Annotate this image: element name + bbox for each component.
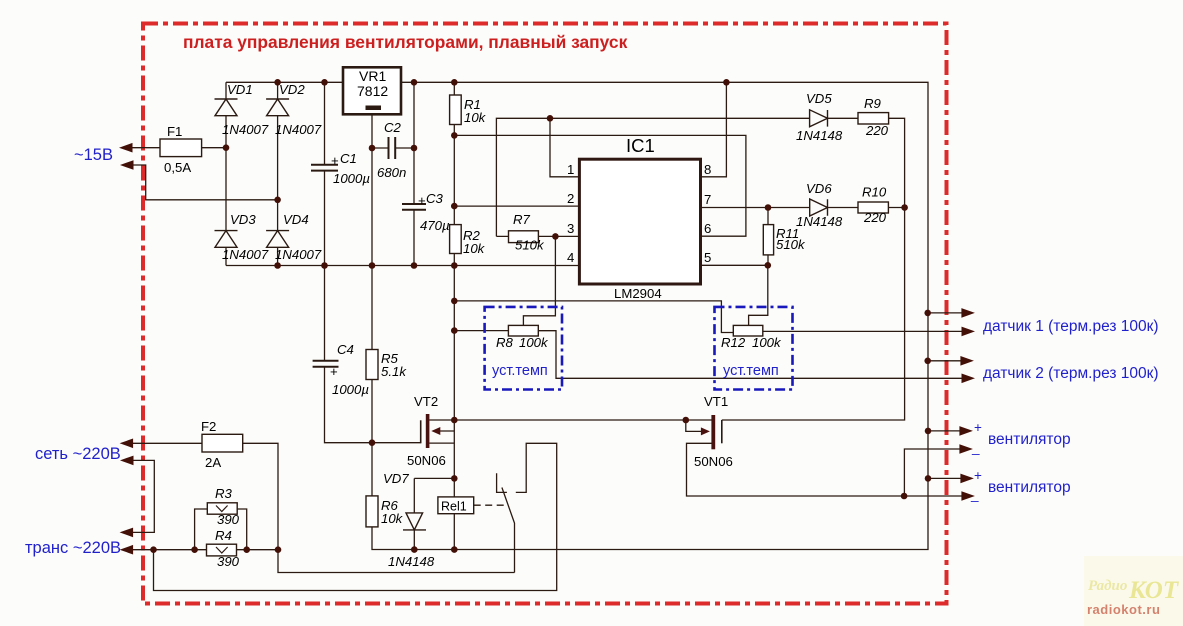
fuse F2 bbox=[202, 434, 243, 452]
svg-text:1000µ: 1000µ bbox=[332, 382, 369, 397]
capacitor C1 branch bbox=[324, 82, 326, 265]
capacitor C4 plates bbox=[313, 361, 339, 367]
diode VD2 branch vertical bbox=[277, 82, 279, 265]
svg-text:220: 220 bbox=[865, 123, 889, 138]
svg-text:1000µ: 1000µ bbox=[333, 171, 370, 186]
svg-text:5: 5 bbox=[704, 250, 711, 265]
svg-text:10k: 10k bbox=[464, 110, 487, 125]
capacitor C3 branch bbox=[413, 82, 415, 265]
svg-text:датчик 2 (терм.рез 100к): датчик 2 (терм.рез 100к) bbox=[983, 365, 1159, 382]
svg-text:C3: C3 bbox=[426, 191, 444, 206]
svg-text:8: 8 bbox=[704, 162, 711, 177]
svg-text:вентилятор: вентилятор bbox=[988, 479, 1071, 496]
svg-text:R9: R9 bbox=[864, 96, 882, 111]
svg-text:Rel1: Rel1 bbox=[441, 500, 467, 514]
svg-text:F1: F1 bbox=[167, 124, 182, 139]
svg-text:VD1: VD1 bbox=[227, 82, 253, 97]
wire датчик top taps bbox=[928, 313, 962, 361]
relay moving arm bbox=[502, 488, 515, 573]
dashed link Rel1 to contact bbox=[474, 504, 505, 506]
resistor R7 bbox=[509, 231, 539, 243]
resistor R11 bbox=[763, 225, 773, 255]
wire VT2 arrow lead bbox=[437, 430, 454, 432]
svg-text:КОТ: КОТ bbox=[1128, 577, 1180, 604]
resistor R5 branch bbox=[371, 266, 373, 443]
svg-text:VD4: VD4 bbox=[283, 212, 309, 227]
blue IO texts bbox=[25, 146, 1159, 557]
svg-text:5.1k: 5.1k bbox=[381, 364, 407, 379]
svg-text:уст.темп: уст.темп bbox=[492, 363, 548, 379]
resistor R4 bbox=[207, 544, 237, 556]
svg-text:680n: 680n bbox=[377, 165, 406, 180]
capacitor C4 plates connection bbox=[324, 266, 326, 361]
wire VT1 drain dot stub and arrow lead bbox=[686, 420, 701, 431]
svg-text:IC1: IC1 bbox=[626, 135, 655, 156]
wire вентилятор1 minus branch bbox=[904, 449, 961, 496]
fuse F2 row and riser down to relay arm wire bbox=[132, 443, 515, 572]
relay coil Rel1 box bbox=[438, 497, 474, 514]
svg-text:плата управления вентиляторами: плата управления вентиляторами, плавный … bbox=[183, 32, 628, 52]
diode VD7 branch bbox=[414, 478, 454, 549]
capacitor C1 plates bbox=[311, 165, 338, 171]
relay fixed contact staple to bottom loop wire bbox=[154, 443, 557, 590]
wire R10 node down to gate row bbox=[722, 208, 905, 421]
diode VD4 symbol bbox=[266, 231, 289, 248]
svg-text:1N4007: 1N4007 bbox=[275, 122, 322, 137]
resistor R1 bbox=[450, 95, 462, 125]
resistor R9 bbox=[858, 113, 889, 124]
svg-text:7812: 7812 bbox=[357, 83, 388, 99]
svg-text:+: + bbox=[331, 153, 339, 168]
wire R7 node down to R8 wiper bbox=[523, 236, 555, 325]
svg-text:1N4148: 1N4148 bbox=[388, 554, 435, 569]
svg-text:3: 3 bbox=[567, 221, 574, 236]
diode VD1 branch vertical bbox=[225, 82, 227, 265]
resistor R2 bbox=[450, 225, 462, 254]
svg-text:+: + bbox=[974, 468, 982, 483]
svg-text:0,5A: 0,5A bbox=[164, 160, 191, 175]
svg-text:R7: R7 bbox=[513, 212, 531, 227]
svg-text:транс ~220В: транс ~220В bbox=[25, 539, 121, 557]
svg-text:R12: R12 bbox=[721, 335, 746, 350]
diode VD6 symbol bbox=[810, 199, 828, 216]
resistor R3 bbox=[207, 503, 237, 514]
svg-text:390: 390 bbox=[217, 512, 240, 527]
wire gate row VT2 drain to VT1 drain bbox=[429, 419, 711, 421]
wire top rail left (VD1 top to VR1) bbox=[226, 81, 343, 83]
svg-text:~15В: ~15В bbox=[74, 146, 113, 164]
svg-text:датчик 1 (терм.рез 100к): датчик 1 (терм.рез 100к) bbox=[983, 318, 1159, 335]
svg-text:2A: 2A bbox=[205, 455, 221, 470]
diode VD3 symbol bbox=[215, 231, 238, 248]
svg-text:C1: C1 bbox=[340, 151, 357, 166]
wire F1 row bbox=[131, 147, 226, 149]
svg-text:R3: R3 bbox=[215, 486, 233, 501]
svg-text:10k: 10k bbox=[463, 241, 486, 256]
svg-text:50N06: 50N06 bbox=[407, 453, 446, 468]
wire top rail right (VR1 to right corner) then +12V column down to bottom rail, bottom rail to R6 bbox=[372, 82, 928, 549]
wire транс row bbox=[132, 549, 278, 551]
wire IC pin2 row bbox=[454, 205, 579, 207]
transistor VT2 gate line bbox=[420, 420, 422, 443]
resistor R1/R2 column down through VT2 to relay and bottom rail bbox=[453, 82, 455, 549]
svg-text:VD3: VD3 bbox=[230, 212, 256, 227]
right arrows bbox=[961, 308, 975, 318]
svg-text:10k: 10k bbox=[381, 511, 404, 526]
resistor R6 bbox=[366, 496, 378, 527]
diode VD5 symbol bbox=[810, 110, 828, 127]
plus minus marks bbox=[330, 153, 426, 379]
wire ~15B lower lead to bridge mid row bbox=[132, 165, 278, 200]
svg-text:R4: R4 bbox=[215, 528, 232, 543]
varistor marks inside R3 R4 bbox=[216, 506, 228, 554]
svg-text:_: _ bbox=[970, 487, 979, 502]
wire R8 left terminal bbox=[454, 330, 508, 332]
wire сеть lower pair link bbox=[133, 460, 154, 532]
capacitor C2 plates bbox=[389, 137, 396, 159]
svg-text:2: 2 bbox=[567, 191, 574, 206]
wire VD5 row with branch down to R7 bbox=[496, 118, 904, 236]
watermark background bbox=[1084, 556, 1183, 626]
wire R12 right terminal to датчик1 lower lead bbox=[763, 330, 962, 332]
diode VD7 symbol bbox=[403, 513, 426, 530]
wire R1 bottom to IC pin6 bbox=[454, 135, 746, 236]
svg-text:4: 4 bbox=[567, 250, 574, 265]
svg-text:VD2: VD2 bbox=[279, 82, 305, 97]
svg-text:_: _ bbox=[971, 440, 980, 455]
left arrows bbox=[119, 143, 133, 153]
resistor R12 potentiometer body bbox=[733, 325, 763, 336]
svg-text:сеть ~220В: сеть ~220В bbox=[35, 445, 121, 463]
regulator VR1 box bbox=[343, 67, 401, 114]
blue dashed box уст.темп right bbox=[715, 307, 793, 390]
svg-text:+: + bbox=[418, 193, 426, 208]
resistor R8 potentiometer body bbox=[508, 325, 538, 336]
svg-text:1N4148: 1N4148 bbox=[796, 214, 843, 229]
svg-text:R10: R10 bbox=[862, 185, 887, 200]
op-amp IC1 box bbox=[579, 159, 700, 284]
svg-text:C2: C2 bbox=[384, 120, 402, 135]
wire node row to R12 left terminal bbox=[454, 301, 733, 333]
board outline red dashed border bbox=[143, 24, 947, 604]
svg-text:100k: 100k bbox=[519, 335, 549, 350]
fuse F1 bbox=[160, 139, 202, 157]
transistor VT1 arrow bbox=[701, 427, 710, 435]
relay contact pivot stub bbox=[497, 473, 507, 492]
svg-text:6: 6 bbox=[704, 221, 711, 236]
wire IC pin5 row bbox=[701, 264, 768, 266]
transistor VT1 gate line bbox=[721, 420, 723, 443]
svg-text:1N4007: 1N4007 bbox=[222, 122, 269, 137]
svg-text:уст.темп: уст.темп bbox=[723, 363, 779, 379]
svg-text:VD7: VD7 bbox=[383, 471, 409, 486]
resistor R7 row (pin3) bbox=[496, 235, 579, 237]
wire IC pin8 riser bbox=[701, 82, 727, 177]
watermark РадиоКОТ bbox=[1087, 577, 1180, 617]
svg-text:VD6: VD6 bbox=[806, 181, 832, 196]
transistor VT2 bar bbox=[426, 414, 430, 448]
svg-text:510k: 510k bbox=[776, 237, 806, 252]
diode VD2 symbol bbox=[266, 99, 289, 116]
resistor R3 parallel loop bbox=[195, 509, 247, 550]
svg-text:F2: F2 bbox=[201, 419, 216, 434]
diode VD1 symbol bbox=[215, 99, 238, 116]
capacitor C3 plates bbox=[402, 204, 426, 210]
svg-text:390: 390 bbox=[217, 554, 240, 569]
svg-text:1N4007: 1N4007 bbox=[222, 247, 269, 262]
svg-text:470µ: 470µ bbox=[420, 218, 450, 233]
svg-text:510k: 510k bbox=[515, 238, 545, 253]
svg-text:100k: 100k bbox=[752, 335, 782, 350]
svg-text:C4: C4 bbox=[337, 342, 354, 357]
wire вентилятор plus taps bbox=[928, 431, 962, 479]
transistor VT2 arrow bbox=[431, 427, 440, 435]
wire ground rail (bridge bottom to IC pin4) bbox=[226, 265, 579, 267]
transistor VT1 bar bbox=[711, 415, 715, 449]
junction dots bbox=[274, 79, 281, 86]
svg-text:radiokot.ru: radiokot.ru bbox=[1087, 602, 1160, 617]
svg-text:вентилятор: вентилятор bbox=[988, 431, 1071, 448]
wire VT2 source lead bbox=[429, 442, 454, 444]
svg-text:7: 7 bbox=[704, 192, 711, 207]
svg-text:VT2: VT2 bbox=[414, 394, 438, 409]
svg-text:Радио: Радио bbox=[1088, 578, 1127, 594]
svg-text:VD5: VD5 bbox=[806, 91, 832, 106]
svg-text:220: 220 bbox=[863, 210, 887, 225]
resistor R10 bbox=[858, 202, 888, 213]
blue dashed box уст.темп left bbox=[485, 307, 562, 390]
wire IC pin1 riser bbox=[550, 118, 579, 177]
svg-text:VT1: VT1 bbox=[704, 394, 728, 409]
regulator VR1 ground lead + capacitor C2 row bbox=[372, 114, 414, 265]
svg-text:1N4007: 1N4007 bbox=[275, 247, 322, 262]
wire VD6/R10 row (pin7) bbox=[701, 207, 905, 209]
wire C4 bottom / VT2 gate lead bbox=[325, 367, 421, 443]
svg-text:VR1: VR1 bbox=[359, 68, 386, 84]
potentiometer R12 wiper loop to pin5 node bbox=[749, 265, 768, 325]
wire VT1 source loop to вентилятор2 minus bbox=[687, 443, 962, 496]
svg-text:+: + bbox=[974, 420, 982, 435]
wire R8 right terminal down to датчик2 lower lead bbox=[538, 331, 961, 379]
regulator VR1 ground tab bbox=[366, 106, 382, 111]
svg-text:50N06: 50N06 bbox=[694, 454, 733, 469]
resistor R5 bbox=[366, 350, 378, 380]
svg-text:+: + bbox=[330, 364, 338, 379]
svg-text:1: 1 bbox=[567, 162, 574, 177]
svg-text:R8: R8 bbox=[496, 335, 514, 350]
resistor R11 branch bbox=[767, 208, 769, 266]
svg-text:1N4148: 1N4148 bbox=[796, 128, 843, 143]
svg-text:LM2904: LM2904 bbox=[614, 286, 662, 301]
resistor R6 branch bbox=[371, 443, 373, 496]
